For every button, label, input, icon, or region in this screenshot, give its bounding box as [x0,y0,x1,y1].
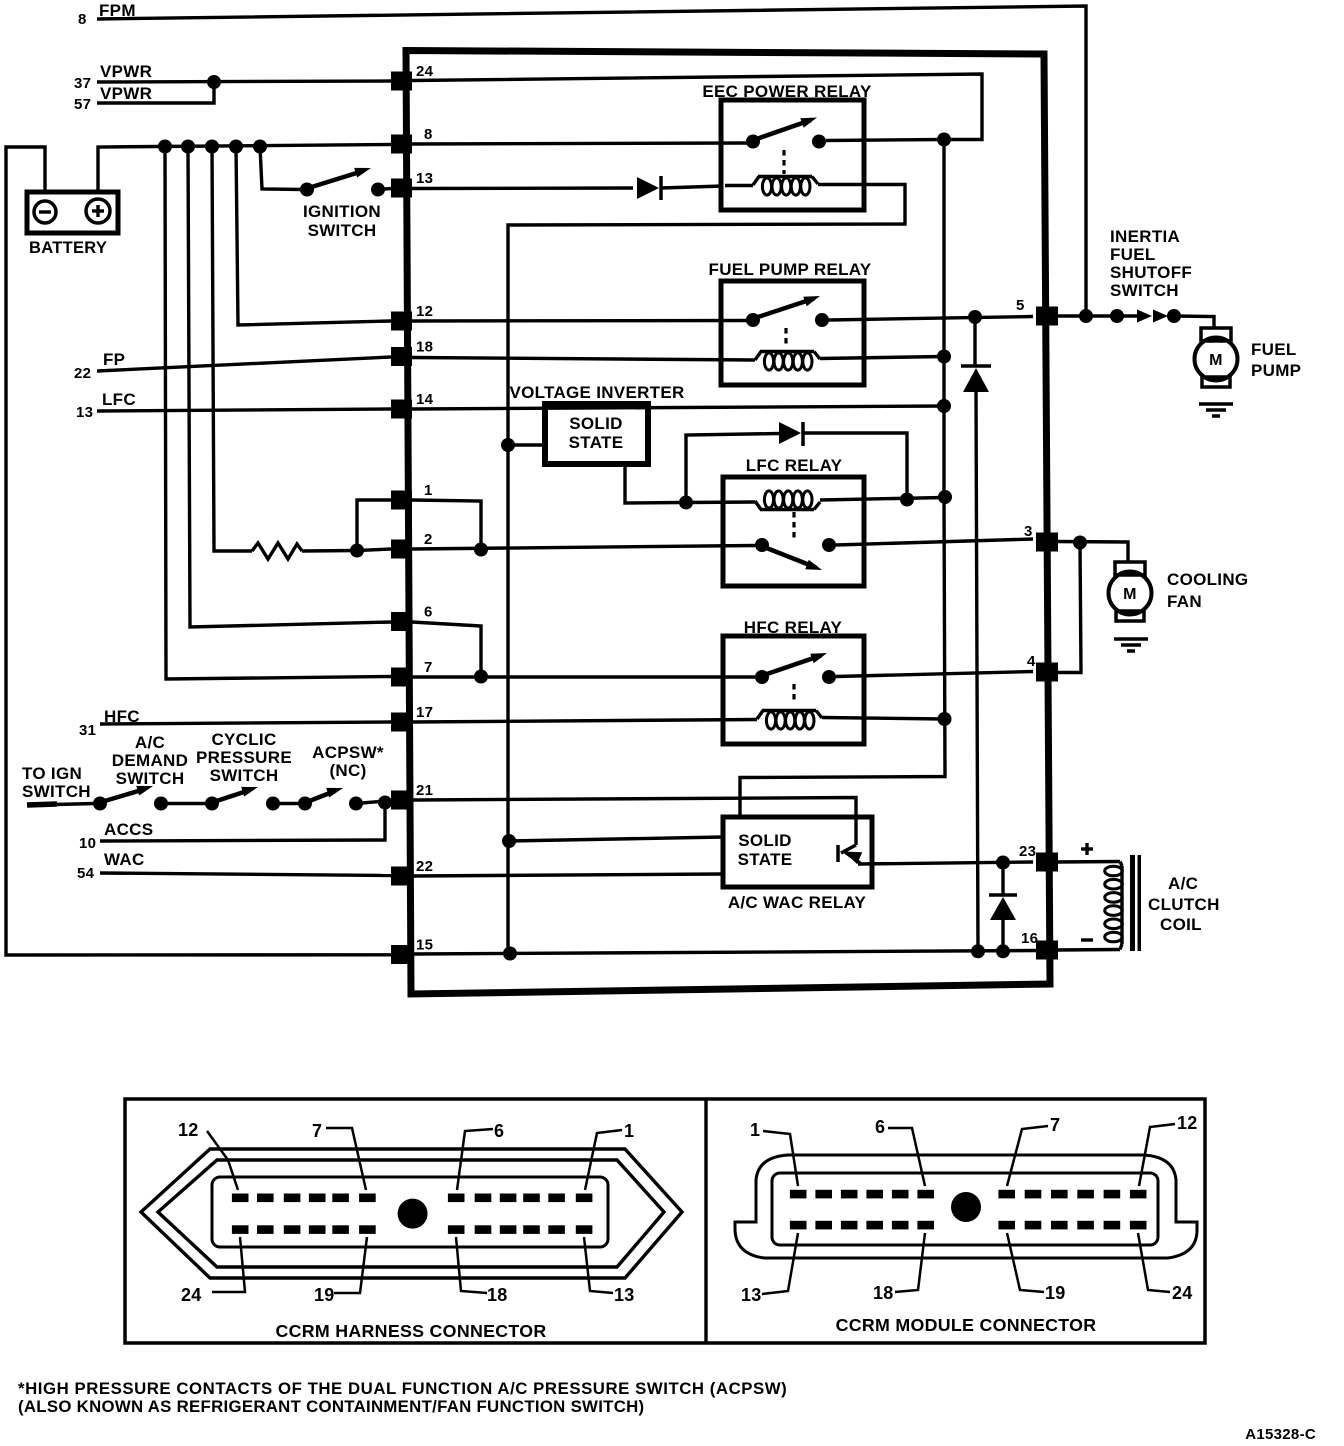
junction V3 ground row [503,947,517,961]
wire pin 1 left loop [357,500,391,550]
wire WAC net to pin 22 [77,850,391,882]
junction LFC coil right [900,493,914,507]
ACPSW switch SW4 (NC) [298,743,384,811]
junction pin7 loop [474,670,488,684]
svg-text:SWITCH: SWITCH [116,769,185,788]
junction LFC coil input [679,496,693,510]
harness pin 12 label [178,1120,238,1190]
junction V1 LFC coil [938,490,952,504]
svg-text:A/C WAC RELAY: A/C WAC RELAY [728,893,867,912]
wire battery positive bus to pin 8 [98,145,391,193]
svg-text:SWITCH: SWITCH [210,766,279,785]
svg-text:13: 13 [614,1285,635,1305]
svg-text:PRESSURE: PRESSURE [196,748,292,767]
harness pin 13 label [584,1237,635,1305]
module pin 6 label [875,1117,925,1186]
svg-text:54: 54 [77,865,95,882]
svg-text:LFC: LFC [102,390,136,409]
EEC power relay K1 [702,82,872,210]
svg-text:17: 17 [416,704,433,721]
svg-text:8: 8 [78,11,87,28]
pin 13 pad [391,170,433,198]
junction pin2 right loop [474,543,488,557]
connector panel frame [125,1099,1205,1343]
harness connector key dot [398,1199,428,1229]
svg-text:18: 18 [487,1285,508,1305]
wire V2 upper [973,317,976,367]
svg-text:4: 4 [1027,653,1036,670]
svg-text:22: 22 [416,858,433,875]
pin 4 pad [1027,653,1058,682]
wire pin 21 row to WAC transistor [412,798,856,846]
pin 17 pad [391,704,433,732]
pin 1 pad [391,482,433,510]
pin 14 pad [391,391,434,419]
junction VPWR [207,75,221,89]
junction V3 inverter [501,438,515,452]
HFC relay K4 [723,618,864,744]
cooling fan motor M2 [1109,562,1249,651]
module pin 7 label [1007,1115,1060,1186]
LFC relay K3 [723,456,864,586]
svg-text:HFC: HFC [104,707,140,726]
svg-text:SWITCH: SWITCH [22,782,91,801]
junction V3 WAC branch [502,834,516,848]
wire pin 24 loop to EEC contact right [412,74,982,140]
svg-text:VOLTAGE INVERTER: VOLTAGE INVERTER [509,383,684,402]
svg-text:ACPSW*: ACPSW* [312,743,384,762]
CCRM module connector J2 body [735,1155,1197,1258]
wire pin 7 row to HFC contact [412,675,755,678]
wire ignition feed [260,146,303,190]
wire diode to EEC coil [661,186,723,188]
svg-text:21: 21 [416,782,433,799]
junction bus A [158,140,172,154]
svg-text:57: 57 [74,96,91,113]
junction bus C [205,140,219,154]
junction flyback bottom [996,944,1010,958]
pin 18 pad [391,339,433,367]
wire pin 1 right loop [412,500,481,549]
flyback diode D4 [989,863,1017,952]
module connector title [836,1315,1097,1335]
wire diode D2 to LFC coil right [803,433,907,500]
wire pin 8 row to EEC relay contact [412,143,748,144]
drawing number [1245,1426,1316,1443]
svg-text:PUMP: PUMP [1251,361,1301,380]
svg-text:SOLID: SOLID [569,414,622,433]
junction ACCS [378,796,392,810]
svg-text:STATE: STATE [569,433,624,452]
svg-text:EEC POWER RELAY: EEC POWER RELAY [702,82,872,101]
svg-text:1: 1 [750,1120,760,1140]
junction V1 FP coil [937,350,951,364]
junction bus B [181,140,195,154]
junction pin 5 diode branch [968,310,982,324]
svg-text:SOLID: SOLID [738,831,791,850]
harness pin 19 label [314,1237,367,1305]
diode D3 [961,366,991,392]
svg-text:TO IGN: TO IGN [22,764,82,783]
svg-text:1: 1 [424,482,433,499]
wire bus drop to pin 7 [165,146,391,679]
wire EEC coil left stub [725,184,753,187]
wire pin 2 row to LFC contact [412,546,755,550]
svg-text:13: 13 [416,170,433,187]
module pin 19 label [1007,1233,1066,1303]
cyclic pressure switch SW3 [196,730,292,811]
pin 24 pad [391,63,434,91]
harness connector title [275,1321,546,1341]
wire SW4 to pin 21 [356,801,391,804]
wire LFC net to pin 14 [76,390,391,421]
svg-text:24: 24 [1172,1283,1193,1303]
svg-text:7: 7 [312,1121,322,1141]
svg-text:15: 15 [416,937,433,954]
svg-text:A/C: A/C [1168,874,1198,893]
svg-text:12: 12 [416,303,433,320]
wire WAC output to pin 23 [858,862,1033,864]
pin 7 pad [391,659,433,687]
wire ignition stub to AC demand switch [27,804,95,806]
svg-text:6: 6 [875,1117,885,1137]
svg-text:24: 24 [416,63,434,80]
svg-text:FUEL: FUEL [1110,245,1156,264]
resistor R1 [252,543,302,559]
svg-text:INERTIA: INERTIA [1110,227,1180,246]
junction FPM [1079,309,1093,323]
wire VPWR net 57 [74,82,214,113]
CCRM module outline [406,51,1050,995]
svg-text:*HIGH PRESSURE CONTACTS OF THE: *HIGH PRESSURE CONTACTS OF THE DUAL FUNC… [18,1379,787,1398]
module pin 13 label [741,1233,798,1305]
label TO IGN SWITCH [22,764,91,801]
svg-text:37: 37 [74,75,91,92]
wire inverter output [625,463,680,503]
svg-text:A/C: A/C [135,733,165,752]
harness pin 7 label [312,1121,366,1190]
wire EEC coil return via V3 [508,185,905,954]
wire pin 23 to clutch coil [1055,843,1120,862]
svg-text:COIL: COIL [1160,915,1202,934]
pin 21 pad [391,782,433,810]
wire FP contact right to pin 5 [829,317,1033,321]
wire pin 12 row to FP relay contact [412,319,748,323]
svg-text:VPWR: VPWR [100,62,152,81]
wire FP coil right to V1 [820,357,944,359]
pin 12 pad [391,303,433,331]
svg-text:19: 19 [1045,1283,1066,1303]
svg-text:COOLING: COOLING [1167,570,1248,589]
wire HFC coil right to V1 [822,718,945,720]
battery B1 [27,192,118,257]
module pin 18 label [873,1233,925,1303]
wire ACCS net to pin 21 [79,803,385,852]
svg-text:M: M [1123,586,1137,603]
svg-text:22: 22 [74,365,91,382]
svg-text:SWITCH: SWITCH [308,221,377,240]
pin 6 pad [391,604,433,632]
wire pin 5 to inertia switch [1055,314,1111,317]
module pin 1 label [750,1120,798,1186]
svg-text:23: 23 [1019,843,1036,860]
svg-text:STATE: STATE [738,850,793,869]
svg-text:FPM: FPM [99,1,136,20]
harness pin 18 label [456,1237,508,1305]
footnote [18,1379,787,1416]
wire battery negative to pin 15 ground loop [6,147,392,955]
A/C demand switch SW2 [93,733,188,811]
wire pin 14 row to V1 [412,406,944,409]
svg-text:VPWR: VPWR [100,84,152,103]
wire V2 lower [976,392,978,951]
svg-text:24: 24 [181,1285,202,1305]
harness pin 24 label [181,1237,245,1305]
wire V1 relay feed vertical [740,140,945,819]
pin 15 pad [391,937,433,965]
A/C clutch coil L1 [1105,855,1220,951]
svg-text:HFC RELAY: HFC RELAY [744,618,843,637]
pin 3 pad [1024,523,1058,552]
svg-text:2: 2 [424,531,433,548]
wire FP net to pin 18 [74,350,391,382]
harness pin 6 label [457,1121,504,1190]
pin 16 pad [1021,930,1058,960]
junction V2 bottom [971,944,985,958]
junction bus E [253,140,267,154]
wire FPM net from pin 8 of PCM to inertia switch node [78,1,1086,316]
A/C WAC relay U2 [723,817,872,912]
junction V1 pin 14 [937,399,951,413]
CCRM harness connector J1 body [141,1149,682,1278]
harness connector pins [232,1194,592,1234]
junction bus D [229,140,243,154]
wire LFC coil to V1 [686,498,945,503]
wire pin 13 row to diode [412,186,633,190]
svg-text:18: 18 [873,1283,894,1303]
pin 23 pad [1019,843,1058,872]
svg-text:(NC): (NC) [329,761,366,780]
svg-text:LFC RELAY: LFC RELAY [746,456,843,475]
wire pin 3 to cooling fan [1055,542,1128,563]
junction pin 3 fan vert [1073,536,1087,550]
fuel pump relay K2 [709,260,872,385]
svg-text:6: 6 [494,1121,504,1141]
wire SW2 to SW3 [161,802,212,805]
wire VPWR net 37 to pin 24 [74,62,392,92]
wire HFC net to pin 17 [79,707,391,739]
wire pin 22 row to WAC box [412,874,723,876]
svg-text:FAN: FAN [1167,592,1202,611]
wire V3 branch to WAC box [509,837,723,841]
module pin 24 label [1138,1233,1193,1303]
svg-text:(ALSO KNOWN AS REFRIGERANT CON: (ALSO KNOWN AS REFRIGERANT CONTAINMENT/F… [18,1397,644,1416]
pin 2 pad [391,531,433,559]
svg-text:CCRM HARNESS CONNECTOR: CCRM HARNESS CONNECTOR [275,1321,546,1341]
wire inertia switch to fuel pump [1174,316,1214,328]
fuel pump motor M1 [1195,328,1302,416]
wire pin 18 row to FP coil [412,358,755,361]
svg-text:FUEL: FUEL [1251,340,1297,359]
svg-text:12: 12 [178,1120,199,1140]
svg-text:CLUTCH: CLUTCH [1148,895,1220,914]
svg-text:14: 14 [416,391,434,408]
svg-text:18: 18 [416,339,433,356]
wire pin 17 row to HFC coil [412,720,757,723]
svg-text:16: 16 [1021,930,1038,947]
svg-text:SHUTOFF: SHUTOFF [1110,263,1192,282]
wire pin 16 to clutch coil [1055,940,1120,950]
svg-text:5: 5 [1016,297,1025,314]
wire bus drop to resistor [212,146,252,551]
wire bus drop to pin 6 [188,146,391,627]
ignition switch SW1 [300,168,391,240]
wire pin 6 right loop [412,622,481,677]
svg-text:A15328-C: A15328-C [1245,1426,1316,1443]
svg-text:12: 12 [1177,1113,1198,1133]
svg-text:7: 7 [424,659,433,676]
pin 5 pad [1016,297,1058,326]
svg-text:13: 13 [741,1285,762,1305]
wire LFC diode bypass [686,434,779,503]
svg-text:CYCLIC: CYCLIC [211,730,276,749]
junction V1 HFC coil [938,712,952,726]
harness pin 1 label [585,1121,634,1190]
junction flyback top [996,856,1010,870]
svg-text:31: 31 [79,722,96,739]
svg-text:1: 1 [624,1121,634,1141]
module connector pins [790,1190,1147,1230]
wire ground row pin 15 to pin 16 [412,951,1040,955]
wire V3 to inverter [508,443,546,446]
svg-text:SWITCH: SWITCH [1110,281,1179,300]
wire bus drop to pin 12 [236,146,391,325]
junction inertia left [1110,309,1124,323]
wire pin3 to pin4 link [1055,543,1081,673]
svg-text:19: 19 [314,1285,335,1305]
diode D2 [779,422,803,446]
svg-text:10: 10 [79,835,96,852]
junction pin1 left loop [350,544,364,558]
svg-text:ACCS: ACCS [104,820,153,839]
wire SW3 to SW4 [273,802,305,805]
wire resistor to pin 2 [302,549,357,553]
svg-text:IGNITION: IGNITION [303,202,381,221]
pin 8 pad [391,126,433,154]
wire EEC contact right to V1 [826,140,944,141]
svg-text:DEMAND: DEMAND [112,751,188,770]
svg-text:FUEL PUMP RELAY: FUEL PUMP RELAY [709,260,872,279]
svg-text:6: 6 [424,604,433,621]
svg-text:13: 13 [76,404,93,421]
diode D1 [637,176,661,200]
svg-text:8: 8 [424,126,433,143]
svg-text:7: 7 [1050,1115,1060,1135]
svg-text:M: M [1209,352,1223,369]
module pin 12 label [1139,1113,1198,1186]
svg-text:BATTERY: BATTERY [29,239,107,257]
wire resistor junction to pin 2 pad [357,549,391,551]
wire HFC contact right to pin 4 [836,672,1033,677]
wire LFC contact right to pin 3 [836,539,1033,545]
junction V1 top [937,133,951,147]
svg-text:FP: FP [103,350,125,369]
pin 22 pad [391,858,433,886]
module connector key dot [951,1192,981,1222]
inertia fuel shutoff switch S5 [1110,227,1192,323]
voltage inverter U3 [509,383,684,464]
svg-text:CCRM MODULE CONNECTOR: CCRM MODULE CONNECTOR [836,1315,1097,1335]
svg-text:WAC: WAC [104,850,145,869]
